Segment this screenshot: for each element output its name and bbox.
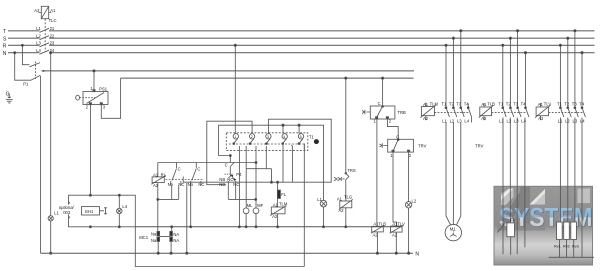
svg-text:21: 21 [50, 26, 55, 31]
svg-text:C: C [225, 163, 228, 168]
svg-text:L1: L1 [558, 119, 563, 124]
svg-text:L3: L3 [457, 119, 462, 124]
svg-text:A2: A2 [423, 116, 429, 121]
TLM mech link [434, 111, 468, 113]
svg-text:1: 1 [234, 135, 236, 139]
svg-text:A2: A2 [339, 208, 345, 213]
svg-text:TLV: TLV [544, 102, 552, 107]
contactor TLM coil [421, 103, 437, 121]
TLB mech link [492, 111, 526, 113]
control line from timer [158, 162, 256, 164]
TLC mechanical link (dashed) [44, 19, 46, 52]
svg-text:L3: L3 [514, 119, 519, 124]
contactor TLB coil [479, 103, 494, 120]
motor ML [243, 208, 249, 228]
svg-text:TRB: TRB [397, 110, 406, 115]
timer terminal 2 [249, 134, 255, 145]
svg-text:L1: L1 [442, 119, 447, 124]
svg-text:P4: P4 [236, 172, 242, 177]
svg-text:NC: NC [198, 182, 204, 187]
svg-text:L4: L4 [521, 119, 526, 124]
P4 thermostat chain [228, 162, 257, 201]
svg-text:A1: A1 [153, 172, 159, 177]
svg-text:G: G [6, 92, 10, 98]
svg-text:A2: A2 [153, 183, 159, 188]
svg-text:T2: T2 [564, 102, 570, 107]
svg-text:4: 4 [283, 135, 285, 139]
lower return rail [135, 144, 304, 267]
svg-text:C: C [378, 101, 381, 106]
contactor TLB contacts [502, 30, 529, 187]
resistor RV1 [557, 222, 563, 240]
svg-text:003: 003 [63, 210, 71, 215]
svg-text:ML: ML [247, 203, 253, 208]
wires into watermark area TLB side [503, 186, 525, 254]
fuse FL [277, 181, 281, 207]
svg-text:L1: L1 [54, 211, 59, 216]
svg-text:Rv2: Rv2 [563, 245, 570, 249]
svg-text:Na: Na [151, 238, 157, 243]
svg-text:L4: L4 [464, 119, 469, 124]
MC1 microswitch contact 2 [160, 226, 173, 254]
svg-text:M1: M1 [450, 226, 457, 231]
svg-text:T2: T2 [506, 101, 512, 106]
contactor coil TLB (control) [371, 119, 385, 255]
heater EH1 [82, 207, 108, 215]
svg-text:C: C [197, 167, 200, 172]
svg-text:T3: T3 [456, 102, 462, 107]
svg-text:A1: A1 [337, 197, 343, 202]
lamp L1 mid [320, 200, 327, 228]
bus line T [8, 30, 595, 32]
selector switch contact C1 [171, 163, 188, 255]
N rail (bottom) [41, 252, 413, 254]
suppressor FV [498, 223, 515, 255]
svg-text:MF: MF [257, 203, 263, 208]
svg-text:A2: A2 [538, 116, 544, 121]
TLC contact poles on buses [40, 28, 50, 54]
svg-text:No: No [188, 182, 194, 187]
svg-text:EH1: EH1 [85, 209, 94, 214]
wire: PS1 output line [121, 77, 414, 79]
bus line R [8, 44, 595, 46]
svg-text:T2: T2 [449, 102, 455, 107]
svg-text:L4: L4 [36, 48, 41, 53]
svg-text:NC: NC [178, 182, 184, 187]
svg-text:C: C [396, 135, 399, 140]
svg-text:TLM: TLM [279, 202, 288, 207]
bus line N [8, 52, 595, 54]
svg-text:N: N [3, 51, 7, 57]
svg-text:ND: ND [219, 182, 225, 187]
svg-text:T1: T1 [557, 102, 563, 107]
svg-text:L1: L1 [36, 26, 41, 31]
svg-text:FV: FV [510, 218, 516, 223]
svg-text:NC: NC [233, 182, 239, 187]
resistor RV3 [571, 222, 577, 240]
svg-text:L2: L2 [565, 119, 570, 124]
wire: R phase to timer input [234, 44, 236, 133]
svg-text:TRV: TRV [475, 144, 484, 149]
svg-text:NA: NA [173, 238, 179, 243]
svg-text:FL: FL [281, 192, 287, 197]
svg-text:T: T [3, 29, 6, 35]
svg-text:T1: T1 [498, 101, 504, 106]
svg-text:L3: L3 [36, 41, 41, 46]
svg-text:L2: L2 [507, 119, 512, 124]
svg-text:L4: L4 [580, 119, 585, 124]
wire: P1 output line [41, 70, 414, 72]
relay RL coil [151, 163, 178, 232]
svg-text:T1: T1 [442, 102, 448, 107]
MC1 microswitch contact 1 [157, 231, 160, 254]
svg-text:T4: T4 [521, 101, 527, 106]
timer terminal 3 [266, 134, 272, 145]
optional heater box [69, 195, 136, 227]
svg-text:A2: A2 [373, 233, 379, 238]
ground G [6, 94, 13, 103]
resistor RV2 [564, 222, 570, 240]
svg-text:TRV: TRV [418, 144, 427, 149]
wire B from timer terminal 3 [183, 119, 331, 182]
timer terminal 1 [233, 134, 239, 145]
svg-text:L1: L1 [499, 119, 504, 124]
svg-text:24: 24 [50, 48, 55, 53]
svg-text:Rv1: Rv1 [554, 245, 561, 249]
svg-text:TLG: TLG [344, 195, 352, 200]
contactor TLM contacts [445, 30, 472, 123]
timer relay TRB [362, 77, 395, 119]
svg-text:T4: T4 [464, 102, 470, 107]
svg-text:N: N [415, 251, 419, 257]
svg-text:5: 5 [300, 135, 302, 139]
thermostat TRS [334, 77, 349, 184]
svg-text:T4: T4 [579, 102, 585, 107]
svg-text:R: R [3, 44, 7, 50]
contactor TLV contacts [559, 30, 585, 187]
buzzer coil TLG [339, 184, 353, 228]
control rail mid (y227) [135, 226, 402, 228]
svg-text:L3: L3 [573, 119, 578, 124]
lamp L2 [405, 152, 411, 254]
wires into watermark area TLV side [549, 186, 594, 257]
svg-text:A1: A1 [423, 102, 429, 107]
svg-text:TLB: TLB [487, 102, 495, 107]
svg-text:2: 2 [251, 135, 253, 139]
svg-text:L4: L4 [122, 204, 127, 209]
timer terminal 4 [282, 134, 288, 145]
svg-text:RL: RL [161, 172, 167, 177]
svg-text:3: 3 [267, 135, 269, 139]
svg-text:A1: A1 [481, 102, 487, 107]
svg-text:PS1: PS1 [99, 87, 108, 92]
lamp L1 [48, 52, 53, 255]
contactor coil TLM (control) [270, 206, 286, 228]
wires below timer [230, 144, 304, 228]
timer knob [314, 139, 319, 144]
svg-text:A1: A1 [538, 102, 544, 107]
svg-text:Na: Na [151, 231, 157, 236]
svg-text:T1: T1 [309, 135, 315, 140]
svg-text:Rv3: Rv3 [572, 245, 579, 249]
key switch PS1 [76, 70, 121, 195]
svg-text:C: C [178, 167, 181, 172]
lamp L4 [89, 194, 122, 228]
timer terminal 5 [298, 134, 304, 145]
svg-text:P1: P1 [23, 81, 29, 86]
bus line S [8, 37, 595, 39]
timer T1 dashed box [226, 133, 307, 151]
wire C from timer terminals 4,5 [219, 124, 324, 200]
svg-text:NA: NA [173, 232, 179, 237]
svg-text:T3: T3 [513, 101, 519, 106]
svg-text:A2: A2 [481, 116, 487, 121]
svg-text:TLM: TLM [430, 102, 439, 107]
svg-text:A2: A2 [392, 233, 398, 238]
TLV mech link [549, 111, 583, 113]
svg-text:A1: A1 [273, 202, 279, 207]
svg-text:T3: T3 [572, 102, 578, 107]
svg-text:22: 22 [50, 33, 55, 38]
svg-text:TLC: TLC [49, 18, 57, 23]
svg-text:23: 23 [50, 41, 55, 46]
svg-text:A1: A1 [50, 8, 56, 13]
timer relay TRV [380, 119, 414, 152]
wire A from timer terminal 2 [207, 121, 252, 185]
svg-text:TRS: TRS [347, 168, 356, 173]
svg-text:TLV: TLV [397, 221, 405, 226]
motor M1 [445, 224, 461, 240]
svg-text:L1: L1 [317, 197, 322, 202]
svg-text:A2: A2 [272, 214, 278, 219]
svg-text:L2: L2 [450, 119, 455, 124]
contactor TLV coil [535, 103, 550, 120]
svg-text:L2: L2 [412, 199, 417, 204]
switch P1 (double pole) [14, 44, 41, 253]
contactor coil TLV (control) [390, 152, 404, 254]
selector switch contact C2 [190, 163, 201, 228]
svg-text:L2: L2 [36, 33, 41, 38]
motor MF [253, 208, 259, 228]
svg-text:No: No [168, 182, 174, 187]
svg-text:MC1: MC1 [139, 235, 149, 240]
motor M1 wires [446, 123, 461, 226]
svg-text:TLB: TLB [378, 221, 386, 226]
contactor TLC coil [39, 6, 52, 18]
svg-text:A2: A2 [34, 8, 40, 13]
